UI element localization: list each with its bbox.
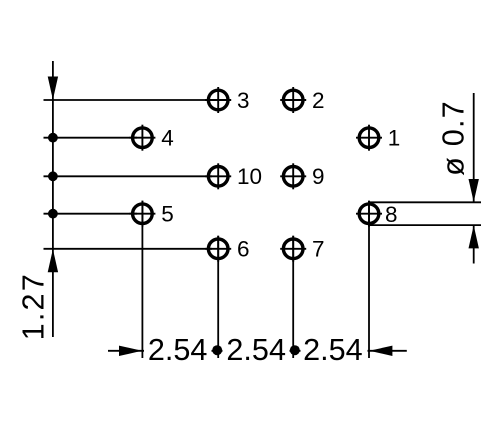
wire row 4 (pin 5): [44, 213, 138, 215]
arrowhead right at column 1 on bottom dimension line: [119, 346, 142, 356]
junction dot bottom at column 3: [290, 345, 300, 355]
svg-text:1.27: 1.27: [16, 272, 50, 340]
dimension line vertical right upper (dia 0.7): [473, 93, 475, 202]
white mask under 2.54 labels: [144, 341, 368, 358]
pin number labels: [161, 88, 400, 262]
dimension labels: [16, 100, 470, 367]
junction dot bottom at column 2: [212, 345, 222, 355]
pin pads: circle with crosshair: [129, 87, 382, 262]
pin 7 pad: [280, 236, 306, 262]
svg-text:6: 6: [237, 237, 250, 262]
pin 10 pad: [205, 163, 231, 189]
wire row 1 (pins 3-2): [44, 99, 213, 101]
svg-text:2: 2: [312, 88, 325, 113]
pin 1 pad: [356, 125, 382, 151]
svg-text:3: 3: [237, 88, 250, 113]
svg-text:8: 8: [385, 202, 398, 227]
arrowhead up at pad bottom tangent (dia dim): [469, 225, 479, 248]
junction dot row 3: [48, 171, 58, 181]
junction dot row 2: [48, 133, 58, 143]
extension line column 4 down from pin 8: [368, 201, 370, 358]
pin 9 pad: [280, 163, 306, 189]
dimension line bottom (2.54 chain): [108, 350, 407, 352]
dimension line vertical left (1.27 chain): [52, 61, 54, 337]
pin 8 pad: [356, 201, 382, 227]
svg-text:2.54: 2.54: [148, 333, 208, 367]
arrowhead down at pad top tangent (dia dim): [469, 179, 479, 202]
extension line column 3 down from pin 7: [292, 236, 294, 358]
svg-text:5: 5: [161, 202, 174, 227]
svg-text:2.54: 2.54: [226, 333, 286, 367]
arrowhead up at row5 on left dimension line: [48, 249, 58, 272]
svg-text:2.54: 2.54: [303, 333, 363, 367]
arrowhead left at column 4 on bottom dimension line: [369, 346, 392, 356]
extension line column 1 down from pin 5: [141, 201, 143, 358]
pin 6 pad: [205, 236, 231, 262]
arrowhead down at row1 on left dimension line: [48, 77, 58, 100]
pin 2 pad: [280, 87, 306, 113]
wire row 3 (pin 10): [44, 175, 213, 177]
wire row 5 (pin 6): [44, 248, 213, 250]
dimension line vertical right lower (dia 0.7): [473, 225, 475, 263]
pad outline bottom tangent line from pin 8: [368, 224, 481, 226]
pad outline top tangent line from pin 8: [368, 201, 481, 203]
junction dot row 4: [48, 209, 58, 219]
svg-text:10: 10: [237, 164, 262, 189]
extension line column 2 down from pin 6: [217, 236, 219, 358]
svg-text:4: 4: [161, 126, 174, 151]
pin 3 pad: [205, 87, 231, 113]
svg-text:7: 7: [312, 237, 325, 262]
wire row 2 (pin 4): [44, 137, 138, 139]
svg-text:1: 1: [388, 126, 401, 151]
svg-text:9: 9: [312, 164, 325, 189]
pin 5 pad: [129, 201, 155, 227]
svg-text:ø 0.7: ø 0.7: [436, 100, 470, 176]
pin 4 pad: [129, 125, 155, 151]
